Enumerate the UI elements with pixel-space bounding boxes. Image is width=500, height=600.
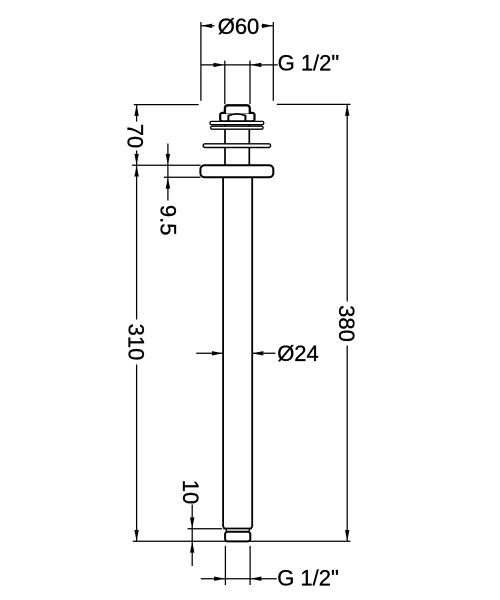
thread stub on top of nut	[225, 105, 250, 113]
svg-text:Ø60: Ø60	[218, 14, 260, 39]
dimension Ø60 : extension lines	[201, 22, 273, 101]
bottom reference line	[133, 540, 351, 542]
dimension 70 : dimension line with arrows	[134, 105, 138, 166]
washer 1	[210, 121, 264, 124]
svg-text:10: 10	[178, 480, 203, 504]
washer 2	[211, 126, 264, 129]
dimension Ø60 : dimension line with arrows	[201, 24, 273, 28]
dimension 310 : dimension line with arrows	[134, 165, 138, 541]
dimension 70 : top tick	[134, 104, 199, 106]
pipe end neck	[226, 529, 249, 531]
svg-text:9.5: 9.5	[155, 205, 180, 236]
dimension 380 : dimension line with arrows	[345, 104, 349, 541]
svg-text:380: 380	[334, 305, 359, 342]
ceiling plate	[200, 165, 273, 177]
dimension 9.5 : arrows outside	[166, 144, 170, 201]
svg-text:G 1/2": G 1/2"	[277, 566, 339, 591]
dimension 9.5 : bottom tick at plate bottom	[164, 176, 201, 178]
nut chamfer dome	[228, 114, 245, 116]
thread pipe upper (between nut and ceiling plate)	[225, 118, 249, 166]
dimension 10 : top tick at pipe bottom	[188, 528, 223, 530]
svg-text:G 1/2": G 1/2"	[278, 51, 340, 76]
dimension 70 / 9.5 shared tick at plate top	[132, 164, 201, 166]
svg-text:Ø24: Ø24	[277, 341, 319, 366]
main pipe body	[223, 177, 252, 528]
dimension G 1/2 top : dimension line with arrows	[201, 63, 278, 67]
dimension G 1/2 top : extension lines	[225, 61, 250, 105]
escutcheon flange	[203, 144, 271, 148]
svg-text:70: 70	[123, 124, 148, 148]
dimension Ø24 : dimension line with arrows	[196, 351, 275, 355]
dimension G 1/2 bottom : extension lines	[225, 546, 250, 585]
svg-text:310: 310	[123, 324, 148, 361]
dimension 380 : top tick	[277, 103, 351, 105]
bottom thread end cap	[225, 532, 250, 542]
dimension G 1/2 bottom : dimension line with arrows	[201, 577, 277, 581]
dimension 10 : line and arrows	[190, 505, 194, 567]
nut	[220, 113, 254, 121]
